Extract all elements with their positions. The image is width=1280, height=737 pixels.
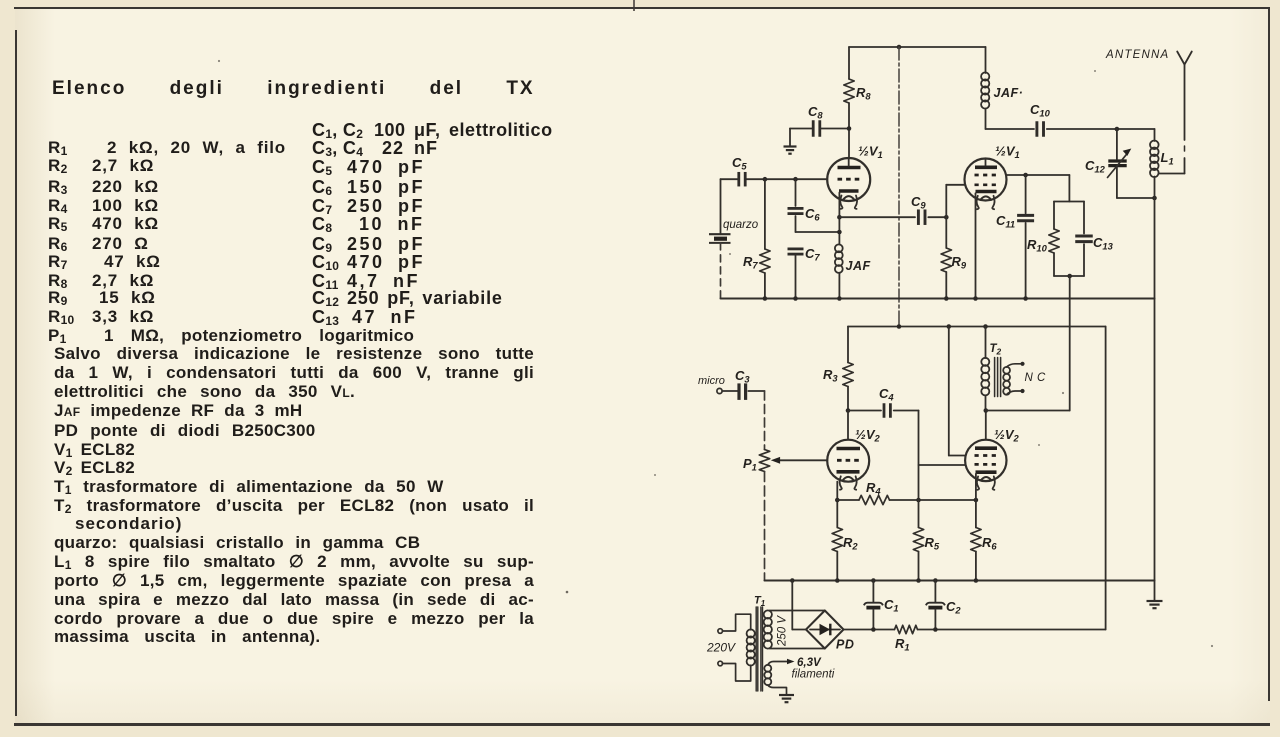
svg-text:T2: T2 [990,343,1002,357]
svg-text:P1: P1 [743,456,757,473]
node: PD bridge riser / ground rail [790,578,795,583]
node: R6 / ground rail [974,578,979,583]
node: C2 riser / ground rail [933,578,938,583]
node: C9 / R9 / grid junction [944,215,949,220]
wire: B+ riser to audio rail [1105,327,1107,630]
wire: C9 coupling line [839,216,915,218]
T1 secondary 250V [764,610,772,618]
node: R4 / V2b cathode [974,498,979,503]
tube V1b (1/2 V1, RF pentode PA) [965,159,1007,201]
svg-text:R8: R8 [856,85,871,102]
capacitor C8 [790,128,813,130]
node: R9/ground [944,296,949,301]
capacitor C5 [737,172,740,187]
ground (main, right) [1147,600,1163,602]
svg-text:C12: C12 [1085,158,1106,175]
svg-text:R9: R9 [952,254,967,271]
svg-text:C9: C9 [911,194,926,211]
svg-text:C4: C4 [879,386,894,403]
wire: T2 primary bottom to V2b anode and modulated riser [985,395,987,410]
svg-text:C2: C2 [946,599,961,616]
node: C1 riser / ground rail [871,578,876,583]
node: cathode / R4 [835,498,840,503]
svg-text:JAF·: JAF· [994,86,1024,100]
ground (filament) [779,694,794,696]
resistor R6 [975,500,977,528]
node: C11/ground [1023,296,1028,301]
capacitor C7 [788,247,804,250]
svg-text:C3: C3 [735,368,750,385]
transformer T2 [985,327,987,359]
svg-text:quarzo: quarzo [723,219,759,231]
wire: V1a grid line [746,178,827,180]
resistor R2 [832,528,842,552]
wire: V1a cathode line [838,193,840,245]
svg-text:C7: C7 [805,246,820,263]
wire: V2a grid to P1 wiper [779,459,827,461]
page frame [633,0,635,11]
svg-text:R6: R6 [982,535,997,552]
wire: V1b anode node to C10 [986,128,1035,130]
resistor R8 [848,47,850,79]
node: T2 primary / audio rail [983,324,988,329]
node: V2b screen riser / audio rail [947,324,952,329]
node: screen / C11 junction [1023,173,1028,178]
svg-text:R2: R2 [843,535,858,552]
wire: C6/C7 node to cathode [796,231,840,233]
node: B+ top rail / centre riser junction [897,45,902,50]
svg-text:C13: C13 [1093,235,1114,252]
svg-text:C11: C11 [996,213,1015,230]
R list [48,138,68,158]
node: L1 bottom / C12 bottom junction [1152,196,1157,201]
diode bridge PD [806,611,844,649]
resistor R4 [837,499,859,501]
wire: modulated B+ riser to T2 [1069,276,1071,411]
svg-text:T1: T1 [754,595,765,609]
svg-text:ANTENNA: ANTENNA [1105,49,1169,61]
node: R4 / R5 riser [916,498,921,503]
microphone input terminal [717,388,722,393]
wire: RF ground rail [721,297,1155,299]
svg-text:R5: R5 [925,535,940,552]
wire: C4 to V2b grid [918,411,920,501]
node: C2 / B+ line [933,627,938,632]
svg-text:C1: C1 [884,597,899,614]
node: box bottom / modulated B+ riser [1067,274,1072,279]
svg-text:N C: N C [1025,372,1047,384]
svg-text:R10: R10 [1027,237,1048,254]
svg-text:R3: R3 [823,367,838,384]
node: cathode / C9 takeoff [837,215,842,220]
paragraph [54,344,534,363]
tube V2a (1/2 V2, triode AF amp) [847,411,849,440]
svg-text:C10: C10 [1030,102,1051,119]
ground (C8) [789,129,791,147]
transformer T1 [755,607,757,691]
node: JAF/ground [837,296,842,301]
wire: audio B+ rail [848,326,1106,328]
capacitor C3 [737,383,740,400]
node: grid line / R7 junction [763,177,768,182]
node: C7/ground [793,296,798,301]
svg-text:½V1: ½V1 [858,144,883,161]
svg-text:250 V: 250 V [777,615,789,647]
svg-text:JAF: JAF [846,259,871,273]
svg-text:R4: R4 [866,480,881,497]
inductor L1 (tank coil) [1154,129,1156,141]
node: tank top / C12 junction [1115,127,1120,132]
node: R2 / ground rail [835,578,840,583]
resistor R5 [918,500,920,528]
svg-text:220V: 220V [706,641,736,655]
node: grid line / C6 junction [793,177,798,182]
node: R7/ground [763,296,768,301]
resistor R3 [847,327,849,363]
node: cathode / C6-C7 node [837,230,842,235]
svg-text:6,3V: 6,3V [797,657,822,669]
svg-text:½V2: ½V2 [855,427,881,444]
svg-text:PD: PD [836,638,854,652]
wire: V1b cathode to ground rail [975,193,977,298]
tube V1a (1/2 V1, triode oscillator) [827,158,870,201]
wire: V2b cathode [975,474,977,500]
wire: B+ top rail [849,46,986,48]
node: R5 / ground rail [916,578,921,583]
T1 primary 220V [747,629,755,637]
node: C1 / B+ line [871,627,876,632]
node: C8 / R8 junction [847,126,852,131]
wire: V1b grid riser [945,185,947,217]
svg-text:½V1: ½V1 [995,144,1020,161]
wire: B+ centre riser [898,47,900,327]
tube V2b (1/2 V2, AF output pentode) [985,411,987,440]
wire: bridge negative to ground rail [792,629,806,631]
svg-text:micro: micro [698,375,725,387]
T1 filament winding 6.3V [764,665,771,672]
wire: anode to C4 [848,410,881,412]
svg-text:R7: R7 [743,254,758,271]
crystal quarzo [720,179,722,234]
resistor R1 [895,625,918,633]
wire: V2a cathode [836,482,838,528]
paper specks [566,591,569,594]
node: centre riser / audio rail [897,324,902,329]
node: V1b cathode/ground [973,296,978,301]
svg-text:C6: C6 [805,206,820,223]
node: V2a anode node [846,408,851,413]
wire: ground drop right side [1154,299,1156,601]
wire: audio ground rail [765,579,1155,581]
inductor JAF (V1a cathode choke) [835,244,843,252]
capacitor C1 (electrolytic) [872,581,874,602]
svg-text:filamenti: filamenti [792,669,835,681]
C list [312,120,363,141]
svg-text:½V2: ½V2 [994,427,1020,444]
potentiometer P1 [764,391,766,450]
svg-text:R1: R1 [895,636,910,653]
capacitor C11 [1025,175,1027,213]
capacitor C9 [917,209,920,225]
capacitor C2 (electrolytic) [934,581,936,602]
capacitor C10 [1035,121,1038,137]
wire: B+ output line [844,629,895,631]
wire: V1b screen line [1006,174,1069,176]
wire: V2b screen riser to B+ rail [949,455,966,457]
inductor JAF (V1b anode choke) [985,47,987,73]
svg-text:C8: C8 [808,104,823,121]
svg-text:C5: C5 [732,155,747,172]
svg-text:L1: L1 [1161,150,1174,167]
resistor R10 with capacitor C13 (parallel box) [1068,175,1070,202]
capacitor C4 [883,403,886,418]
